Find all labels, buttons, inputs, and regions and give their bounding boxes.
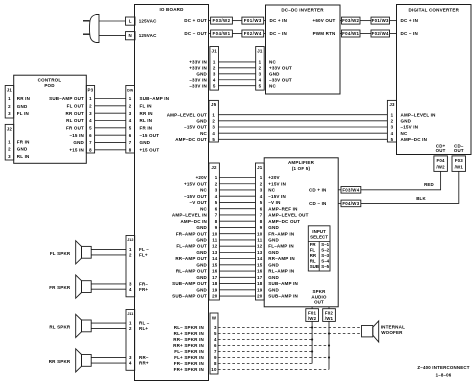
svg-text:J3: J3 [389, 102, 395, 107]
svg-text:1–8–06: 1–8–06 [436, 373, 452, 378]
svg-text:GND: GND [196, 262, 207, 267]
svg-text:F01/W3: F01/W3 [372, 18, 389, 23]
svg-text:SPKR: SPKR [313, 289, 327, 294]
svg-text:RR–AMP IN: RR–AMP IN [268, 256, 294, 261]
svg-text:+15 OUT: +15 OUT [140, 147, 160, 152]
svg-text:OUT: OUT [314, 300, 324, 305]
svg-text:7: 7 [260, 213, 263, 218]
svg-text:3: 3 [260, 188, 263, 193]
svg-text:–V IN: –V IN [268, 200, 280, 205]
svg-text:GND: GND [268, 250, 279, 255]
svg-text:FL IN: FL IN [17, 111, 29, 116]
svg-text:3: 3 [214, 325, 217, 330]
svg-text:INPUT: INPUT [312, 229, 326, 234]
svg-text:FL –: FL – [139, 247, 149, 252]
svg-text:GND: GND [196, 250, 207, 255]
svg-text:F04/W3: F04/W3 [342, 201, 359, 206]
svg-text:F01/W3: F01/W3 [244, 18, 262, 23]
svg-text:GND: GND [196, 71, 207, 76]
svg-text:FL IN: FL IN [140, 103, 152, 108]
svg-text:GND: GND [17, 104, 28, 109]
svg-text:12: 12 [212, 244, 218, 249]
svg-text:F02: F02 [325, 310, 334, 315]
svg-text:FL+ SPKR IN: FL+ SPKR IN [174, 355, 204, 360]
svg-text:10: 10 [257, 231, 263, 236]
svg-text:GND: GND [73, 140, 84, 145]
svg-text:5: 5 [259, 83, 262, 88]
svg-text:16: 16 [257, 269, 263, 274]
svg-text:OUT: OUT [454, 148, 464, 153]
svg-text:GND: GND [268, 275, 279, 280]
svg-text:4: 4 [259, 77, 262, 82]
svg-text:1: 1 [391, 112, 394, 117]
svg-text:2: 2 [129, 253, 132, 258]
svg-text:3: 3 [259, 71, 262, 76]
svg-text:F04/W1: F04/W1 [212, 31, 230, 36]
svg-text:2: 2 [129, 326, 132, 331]
svg-text:RL–AMP OUT: RL–AMP OUT [176, 269, 207, 274]
svg-text:RL –: RL – [139, 321, 150, 326]
svg-text:1: 1 [8, 140, 11, 145]
svg-text:2: 2 [212, 118, 215, 123]
svg-text:FL+: FL+ [139, 253, 148, 258]
svg-text:F03/W4: F03/W4 [342, 187, 359, 192]
svg-text:6: 6 [260, 206, 263, 211]
svg-text:4: 4 [129, 287, 132, 292]
svg-text:12: 12 [257, 244, 263, 249]
svg-text:SELECT: SELECT [310, 234, 328, 239]
svg-text:Z–400 INTERCONNECT: Z–400 INTERCONNECT [417, 365, 469, 370]
svg-text:GND: GND [140, 140, 151, 145]
svg-text:1: 1 [212, 112, 215, 117]
svg-text:FR– SPKR IN: FR– SPKR IN [174, 361, 204, 366]
svg-text:–15 IN: –15 IN [70, 133, 84, 138]
svg-text:–15V OUT: –15V OUT [184, 194, 207, 199]
svg-text:3: 3 [129, 111, 132, 116]
svg-text:INTERNAL: INTERNAL [381, 325, 405, 330]
svg-text:F01: F01 [308, 310, 317, 315]
svg-text:8: 8 [214, 361, 217, 366]
svg-text:GND: GND [268, 287, 279, 292]
svg-text:5: 5 [129, 125, 132, 130]
svg-text:FL– SPKR IN: FL– SPKR IN [174, 349, 204, 354]
svg-text:+33V OUT: +33V OUT [269, 65, 292, 70]
svg-text:GND: GND [269, 71, 280, 76]
svg-text:20: 20 [212, 294, 218, 299]
svg-text:PWM RTN: PWM RTN [313, 31, 336, 36]
svg-text:FL–AMP IN: FL–AMP IN [268, 244, 293, 249]
svg-text:AMP–LEVEL OUT: AMP–LEVEL OUT [167, 112, 207, 117]
svg-text:19: 19 [257, 287, 263, 292]
svg-text:DC – OUT: DC – OUT [184, 31, 207, 36]
svg-text:+15V IN: +15V IN [268, 181, 286, 186]
svg-text:5: 5 [215, 200, 218, 205]
svg-text:2: 2 [259, 65, 262, 70]
svg-text:125VAC: 125VAC [139, 19, 157, 24]
svg-text:GND: GND [196, 118, 207, 123]
svg-text:8: 8 [89, 147, 92, 152]
svg-text:2: 2 [215, 181, 218, 186]
svg-text:GND: GND [268, 225, 279, 230]
svg-text:BLK: BLK [416, 196, 426, 201]
svg-text:5: 5 [260, 200, 263, 205]
svg-text:NC: NC [269, 60, 276, 65]
svg-text:SUB–AMP OUT: SUB–AMP OUT [172, 281, 207, 286]
svg-text:J5: J5 [211, 102, 217, 107]
svg-text:FL: FL [310, 248, 316, 253]
svg-text:5: 5 [214, 331, 217, 336]
svg-text:F03/W2: F03/W2 [212, 18, 230, 23]
svg-text:DC – IN: DC – IN [401, 31, 418, 36]
svg-text:AMPLIFIER: AMPLIFIER [288, 160, 315, 165]
svg-text:FR IN: FR IN [17, 140, 30, 145]
svg-text:GND: GND [196, 275, 207, 280]
svg-text:13: 13 [212, 250, 218, 255]
svg-text:18: 18 [257, 281, 263, 286]
svg-text:10: 10 [211, 367, 217, 372]
svg-text:13: 13 [257, 250, 263, 255]
svg-text:9: 9 [215, 225, 218, 230]
svg-text:AMP–REF IN: AMP–REF IN [268, 206, 297, 211]
svg-text:/W2: /W2 [436, 164, 445, 169]
svg-text:CONTROL: CONTROL [38, 77, 62, 82]
svg-text:FR–: FR– [139, 282, 148, 287]
svg-text:SUB–AMP IN: SUB–AMP IN [140, 96, 170, 101]
svg-text:FR SPKR: FR SPKR [49, 285, 71, 290]
svg-text:RL– SPKR IN: RL– SPKR IN [174, 325, 204, 330]
svg-text:+33V IN: +33V IN [189, 65, 207, 70]
svg-text:/W1: /W1 [455, 164, 464, 169]
svg-text:NC: NC [200, 131, 207, 136]
svg-text:RR OUT: RR OUT [66, 111, 84, 116]
svg-text:OUT: OUT [436, 148, 446, 153]
svg-text:1: 1 [260, 175, 263, 180]
svg-text:2: 2 [213, 65, 216, 70]
svg-text:RR SPKR: RR SPKR [49, 359, 71, 364]
svg-text:7: 7 [129, 140, 132, 145]
svg-text:RED: RED [424, 182, 434, 187]
svg-text:J1: J1 [257, 48, 263, 53]
svg-text:7: 7 [215, 213, 218, 218]
svg-text:11: 11 [257, 238, 262, 243]
svg-text:CD + IN: CD + IN [309, 187, 327, 192]
svg-text:3: 3 [129, 355, 132, 360]
svg-text:1: 1 [129, 96, 132, 101]
svg-text:RL–AMP IN: RL–AMP IN [268, 269, 294, 274]
svg-text:DIN: DIN [127, 88, 133, 92]
svg-text:GND: GND [401, 118, 412, 123]
svg-text:/W1: /W1 [325, 316, 334, 321]
svg-text:14: 14 [257, 256, 263, 261]
svg-text:17: 17 [257, 275, 263, 280]
svg-text:RR+: RR+ [139, 361, 149, 366]
svg-text:2: 2 [129, 103, 132, 108]
svg-text:3: 3 [212, 125, 215, 130]
svg-text:SUB–AMP IN: SUB–AMP IN [268, 294, 298, 299]
svg-text:GND: GND [268, 238, 279, 243]
svg-text:RL IN: RL IN [140, 118, 153, 123]
svg-text:–33V IN: –33V IN [189, 77, 207, 82]
svg-text:FL SPKR: FL SPKR [50, 251, 71, 256]
svg-text:S–4: S–4 [321, 259, 329, 264]
svg-text:+33V IN: +33V IN [189, 60, 207, 65]
svg-text:1: 1 [8, 96, 11, 101]
svg-text:P3: P3 [88, 87, 94, 92]
svg-text:RR– SPKR IN: RR– SPKR IN [173, 337, 204, 342]
svg-text:AMP–DC IN: AMP–DC IN [401, 137, 428, 142]
svg-text:AMP–DC IN: AMP–DC IN [180, 219, 207, 224]
svg-text:–V OUT: –V OUT [190, 200, 208, 205]
svg-text:FR+ SPKR IN: FR+ SPKR IN [174, 367, 204, 372]
svg-text:RL SPKR: RL SPKR [49, 324, 71, 329]
svg-text:–15V IN: –15V IN [268, 194, 286, 199]
svg-text:FR+: FR+ [139, 287, 148, 292]
svg-text:16: 16 [212, 269, 218, 274]
svg-text:NC: NC [200, 188, 207, 193]
svg-text:–15 OUT: –15 OUT [140, 133, 160, 138]
svg-text:1: 1 [129, 321, 132, 326]
svg-text:RR+ SPKR IN: RR+ SPKR IN [173, 343, 204, 348]
svg-text:RR–: RR– [139, 355, 149, 360]
svg-text:5: 5 [212, 137, 215, 142]
svg-text:6: 6 [215, 206, 218, 211]
svg-text:J1: J1 [257, 165, 263, 170]
svg-text:3: 3 [215, 188, 218, 193]
svg-text:J2: J2 [7, 126, 13, 131]
svg-text:NC: NC [401, 131, 408, 136]
svg-text:RL IN: RL IN [17, 154, 30, 159]
svg-text:DC + IN: DC + IN [401, 18, 419, 23]
svg-text:RL OUT: RL OUT [66, 118, 84, 123]
svg-text:NC: NC [200, 206, 207, 211]
svg-text:6: 6 [214, 343, 217, 348]
svg-text:14: 14 [212, 256, 218, 261]
svg-text:GND: GND [17, 147, 28, 152]
svg-text:2: 2 [260, 181, 263, 186]
svg-text:F04: F04 [437, 158, 446, 163]
svg-text:2: 2 [8, 104, 11, 109]
svg-text:SUB: SUB [310, 264, 319, 269]
svg-text:2: 2 [391, 118, 394, 123]
svg-text:GND: GND [196, 225, 207, 230]
svg-text:4: 4 [129, 118, 132, 123]
svg-text:IO BOARD: IO BOARD [159, 7, 184, 12]
svg-text:20: 20 [257, 294, 263, 299]
svg-text:GND: GND [196, 287, 207, 292]
svg-text:5: 5 [391, 137, 394, 142]
svg-text:4: 4 [260, 194, 263, 199]
svg-text:F03: F03 [455, 158, 464, 163]
svg-text:RL: RL [310, 259, 316, 264]
svg-text:8: 8 [129, 147, 132, 152]
svg-text:4: 4 [215, 194, 218, 199]
svg-text:18: 18 [212, 281, 218, 286]
svg-text:FR IN: FR IN [140, 125, 153, 130]
svg-text:1: 1 [215, 175, 218, 180]
svg-text:FR: FR [310, 242, 317, 247]
svg-text:4: 4 [89, 118, 92, 123]
svg-text:RR–AMP OUT: RR–AMP OUT [175, 256, 207, 261]
svg-text:–33V OUT: –33V OUT [269, 77, 292, 82]
svg-text:7: 7 [214, 349, 217, 354]
svg-text:3: 3 [8, 111, 11, 116]
svg-text:S–3: S–3 [321, 253, 329, 258]
svg-text:17: 17 [212, 275, 218, 280]
svg-text:7: 7 [89, 140, 92, 145]
svg-text:125VAC: 125VAC [139, 33, 157, 38]
svg-text:N: N [129, 33, 132, 38]
svg-text:SUB–AMP IN: SUB–AMP IN [268, 281, 298, 286]
svg-text:+20V: +20V [196, 175, 207, 180]
svg-text:1: 1 [259, 60, 262, 65]
svg-text:5: 5 [213, 83, 216, 88]
svg-text:3: 3 [213, 71, 216, 76]
svg-text:+20V: +20V [268, 175, 279, 180]
svg-text:10: 10 [212, 231, 218, 236]
svg-text:J12: J12 [127, 238, 133, 242]
svg-text:9: 9 [260, 225, 263, 230]
svg-text:4: 4 [214, 337, 217, 342]
svg-text:W: W [212, 315, 217, 320]
svg-text:4: 4 [212, 131, 215, 136]
svg-text:4: 4 [213, 77, 216, 82]
svg-text:+60V OUT: +60V OUT [313, 18, 336, 23]
svg-text:CD – IN: CD – IN [309, 201, 326, 206]
svg-text:/W2: /W2 [308, 316, 317, 321]
svg-text:RR IN: RR IN [17, 96, 30, 101]
svg-text:DIGITAL CONVERTER: DIGITAL CONVERTER [409, 7, 460, 12]
svg-text:15: 15 [257, 262, 263, 267]
svg-text:15: 15 [212, 262, 218, 267]
svg-text:2: 2 [8, 147, 11, 152]
svg-text:DC + OUT: DC + OUT [184, 18, 207, 23]
svg-text:1: 1 [213, 60, 216, 65]
svg-text:6: 6 [129, 133, 132, 138]
svg-text:F02/W4: F02/W4 [372, 31, 389, 36]
svg-text:5: 5 [89, 125, 92, 130]
svg-text:2: 2 [89, 103, 92, 108]
svg-text:RR IN: RR IN [140, 111, 153, 116]
svg-text:+15 IN: +15 IN [69, 147, 84, 152]
svg-text:(1 OF 5): (1 OF 5) [292, 166, 311, 171]
svg-text:DC + IN: DC + IN [270, 18, 288, 23]
svg-text:9: 9 [214, 355, 217, 360]
svg-text:–33V IN: –33V IN [189, 83, 207, 88]
svg-text:AMP–LEVEL OUT: AMP–LEVEL OUT [268, 213, 308, 218]
svg-text:GND: GND [196, 238, 207, 243]
svg-text:AMP–DC OUT: AMP–DC OUT [175, 137, 207, 142]
svg-text:–15V OUT: –15V OUT [184, 125, 207, 130]
svg-text:FR–AMP IN: FR–AMP IN [268, 231, 294, 236]
svg-text:11: 11 [212, 238, 217, 243]
svg-text:J1: J1 [212, 48, 218, 53]
svg-text:F04/W1: F04/W1 [342, 31, 359, 36]
svg-text:3: 3 [129, 282, 132, 287]
svg-text:SUB–AMP OUT: SUB–AMP OUT [172, 294, 207, 299]
svg-text:S–1: S–1 [321, 242, 329, 247]
svg-text:1: 1 [129, 247, 132, 252]
svg-text:S–5: S–5 [321, 264, 329, 269]
svg-text:NC: NC [268, 188, 275, 193]
svg-text:J11: J11 [127, 312, 133, 316]
svg-text:FL OUT: FL OUT [67, 103, 84, 108]
svg-text:FR–AMP OUT: FR–AMP OUT [176, 231, 207, 236]
svg-text:–15V IN: –15V IN [401, 125, 419, 130]
svg-text:DC–DC INVERTER: DC–DC INVERTER [281, 7, 324, 12]
svg-text:4: 4 [129, 361, 132, 366]
svg-text:3: 3 [8, 154, 11, 159]
svg-text:GND: GND [268, 262, 279, 267]
svg-text:3: 3 [89, 111, 92, 116]
svg-text:3: 3 [391, 125, 394, 130]
svg-text:WOOFER: WOOFER [381, 330, 403, 335]
svg-text:POD: POD [44, 83, 55, 88]
svg-text:AMP–LEVEL IN: AMP–LEVEL IN [172, 213, 207, 218]
svg-text:19: 19 [212, 287, 218, 292]
svg-text:AMP–LEVEL IN: AMP–LEVEL IN [401, 112, 436, 117]
svg-text:8: 8 [260, 219, 263, 224]
svg-text:J2: J2 [211, 165, 217, 170]
svg-text:+15V OUT: +15V OUT [184, 181, 207, 186]
svg-text:J1: J1 [7, 87, 13, 92]
svg-text:SUB–AMP OUT: SUB–AMP OUT [49, 96, 84, 101]
svg-text:RL+ SPKR IN: RL+ SPKR IN [174, 331, 204, 336]
svg-text:RL+: RL+ [139, 326, 148, 331]
svg-text:4: 4 [391, 131, 394, 136]
svg-text:8: 8 [215, 219, 218, 224]
svg-text:6: 6 [89, 133, 92, 138]
svg-text:L: L [129, 19, 132, 24]
svg-text:F02/W4: F02/W4 [244, 31, 262, 36]
svg-text:F03/W2: F03/W2 [342, 18, 359, 23]
svg-text:FL–AMP OUT: FL–AMP OUT [176, 244, 207, 249]
svg-text:AMP–DC OUT: AMP–DC OUT [268, 219, 300, 224]
svg-text:NC: NC [269, 83, 276, 88]
svg-text:RR: RR [310, 253, 317, 258]
svg-text:FR OUT: FR OUT [66, 125, 84, 130]
svg-text:S–2: S–2 [321, 248, 329, 253]
svg-text:1: 1 [89, 96, 92, 101]
svg-text:DC – IN: DC – IN [270, 31, 287, 36]
